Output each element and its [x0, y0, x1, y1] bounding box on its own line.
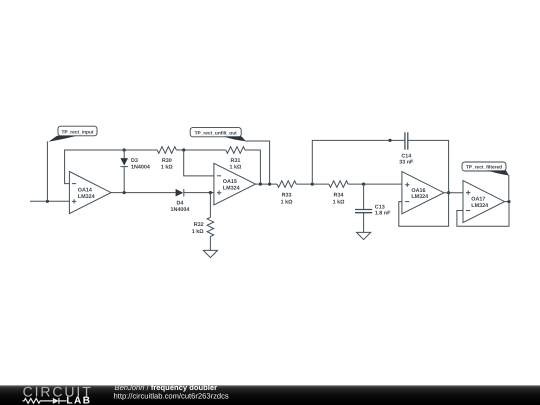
resistor R31 — [226, 147, 245, 154]
label R30 — [161, 158, 173, 171]
node input junction — [46, 200, 49, 203]
svg-text:R31: R31 — [230, 158, 240, 164]
op-amp OA15 — [214, 163, 256, 205]
footer bar — [0, 385, 540, 405]
wire TP_rect_input to input net — [46, 141, 48, 201]
ground below R32 — [203, 250, 217, 257]
svg-text:OA17: OA17 — [471, 196, 485, 202]
capacitor C14 — [405, 132, 408, 149]
svg-text:OA16: OA16 — [411, 188, 425, 194]
svg-text:LM324: LM324 — [411, 194, 428, 200]
label R34 — [333, 193, 345, 206]
ground below C13 — [357, 232, 371, 239]
node OA15 noninverting junction — [209, 191, 212, 194]
svg-text:D4: D4 — [176, 200, 183, 206]
wire OA15 output — [256, 183, 278, 185]
CircuitLab logo resistor-diode symbol — [23, 398, 67, 404]
label D4 — [170, 200, 189, 213]
resistor R34 — [329, 181, 348, 188]
svg-text:1 kΩ: 1 kΩ — [161, 165, 173, 171]
wire C14 to OA16 output — [408, 140, 449, 192]
svg-text:OA14: OA14 — [78, 187, 92, 193]
op-amp OA17 — [463, 181, 505, 223]
op-amp OA14 — [69, 172, 111, 214]
capacitor C13 — [355, 184, 372, 232]
wire R31 to OA15 output — [245, 150, 260, 184]
node D3 bottom junction — [123, 191, 126, 194]
svg-text:1 kΩ: 1 kΩ — [192, 229, 204, 235]
diode D4 — [176, 189, 214, 197]
node OA16 output junction — [447, 191, 450, 194]
node C14 wire junction — [388, 139, 391, 142]
flag TP_rect_input — [49, 126, 98, 142]
label C13 — [375, 204, 391, 216]
svg-text:D3: D3 — [131, 158, 138, 164]
svg-text:OA15: OA15 — [223, 179, 237, 185]
svg-text:BenJohn / frequency doubler: BenJohn / frequency doubler — [115, 383, 218, 392]
label R33 — [281, 193, 293, 206]
svg-text:http://circuitlab.com/cut6r263: http://circuitlab.com/cut6r263rzdcs — [114, 392, 229, 401]
svg-text:LM324: LM324 — [78, 194, 95, 200]
node OA15 output junction 2 — [268, 183, 271, 186]
resistor R32 — [207, 193, 214, 251]
svg-text:1 kΩ: 1 kΩ — [333, 199, 345, 205]
wire OA16 output to OA17 — [444, 192, 463, 194]
svg-text:TP_rect_filtered: TP_rect_filtered — [466, 165, 502, 171]
wire filter junction to C14 — [312, 140, 405, 184]
label R31 — [229, 158, 241, 171]
resistor R30 — [157, 147, 176, 154]
svg-text:1.8 nF: 1.8 nF — [375, 210, 391, 216]
svg-text:1N4004: 1N4004 — [170, 207, 189, 213]
wire OA14 feedback to top net — [65, 150, 125, 184]
svg-text:R33: R33 — [282, 193, 292, 199]
svg-text:LM324: LM324 — [223, 186, 240, 192]
svg-text:1 kΩ: 1 kΩ — [281, 199, 293, 205]
label D3 — [131, 158, 150, 171]
flag TP_rect_unfilt_out — [190, 128, 246, 142]
svg-text:TP_rect_input: TP_rect_input — [62, 129, 94, 135]
node OA15 output junction 1 — [259, 183, 262, 186]
svg-text:33 nF: 33 nF — [399, 160, 414, 166]
flag TP_rect_filtered — [462, 162, 509, 176]
wire top net D3 to R30 — [124, 149, 157, 151]
wire R30 to R31 — [176, 149, 225, 151]
node filter junction — [311, 183, 314, 186]
svg-text:1 kΩ: 1 kΩ — [229, 165, 241, 171]
node OA17 output junction — [507, 200, 510, 203]
wire OA17 feedback loop — [457, 202, 509, 227]
resistor R33 — [277, 181, 296, 188]
op-amp OA16 — [402, 172, 444, 214]
wire summing node to OA15 inverting input — [184, 150, 214, 176]
svg-text:R32: R32 — [194, 222, 204, 228]
svg-text:R30: R30 — [162, 158, 172, 164]
node D3 top junction — [123, 148, 126, 151]
node C13 junction — [362, 183, 365, 186]
label R32 — [192, 222, 204, 235]
wire R34 to OA16 noninverting input — [348, 183, 402, 185]
svg-text:LM324: LM324 — [471, 203, 488, 209]
svg-text:1N4004: 1N4004 — [131, 165, 150, 171]
wire OA17 output — [505, 201, 509, 203]
svg-text:C14: C14 — [401, 154, 411, 160]
svg-text:TP_rect_unfilt_out: TP_rect_unfilt_out — [195, 130, 238, 136]
wire R33 to R34 — [296, 183, 329, 185]
wire TP_rect_unfilt_out to output net — [245, 141, 270, 184]
wire TP_rect_filtered to output — [508, 175, 510, 202]
node summing junction — [182, 148, 185, 151]
svg-text:LAB: LAB — [66, 395, 91, 405]
label C14 — [399, 154, 414, 166]
wire OA14 output — [111, 192, 176, 194]
svg-text:C13: C13 — [375, 204, 385, 210]
wire OA16 feedback loop — [399, 193, 449, 227]
svg-text:R34: R34 — [334, 193, 344, 199]
wire input stub — [30, 200, 69, 202]
diode D3 — [120, 150, 128, 193]
